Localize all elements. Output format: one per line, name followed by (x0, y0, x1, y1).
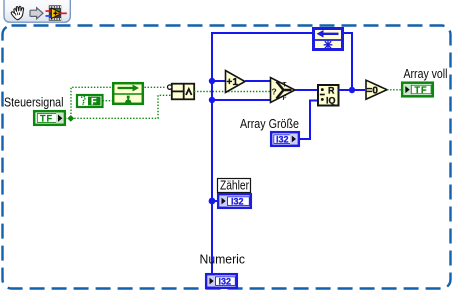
wire equal zero to Array voll indicator (387, 89, 402, 91)
wire junction to Zaehler indicator (209, 198, 218, 205)
toolbar hand tool icon (11, 6, 23, 19)
wire Array Groesse to quotient remainder y (299, 101, 317, 140)
toolbar select arrow icon (30, 8, 43, 19)
numeric control terminal Array Groesse I32 (271, 132, 299, 146)
svg-text:T: T (283, 82, 287, 89)
wire quotient remainder R output to equal zero with junction to feedback (339, 33, 366, 93)
wire Steuersignal to junction (65, 117, 68, 119)
svg-text:I32: I32 (276, 134, 289, 144)
wire junction to increment node (209, 78, 225, 84)
wire main vertical blue (212, 33, 313, 276)
wire AND output to select selector input (194, 91, 270, 93)
svg-text:+1: +1 (227, 77, 239, 88)
label Zaehler boxed (218, 179, 251, 193)
wire increment to select true input (245, 80, 270, 82)
svg-text:Array voll: Array voll (404, 67, 448, 81)
numeric indicator terminal Zaehler I32 (218, 194, 251, 208)
boolean control terminal Steuersignal TF (34, 111, 65, 125)
boolean constant ?F (77, 95, 103, 107)
label Steuersignal (4, 96, 64, 110)
svg-text:I32: I32 (231, 196, 244, 206)
svg-text:=0: =0 (367, 86, 379, 97)
AND node compound arithmetic (168, 83, 195, 99)
svg-text:Zähler: Zähler (220, 179, 249, 193)
label Array voll (404, 67, 448, 81)
svg-text:Numeric: Numeric (200, 253, 246, 267)
wire junction up and right to feedback node input (71, 87, 112, 114)
numeric control label Array Groesse (240, 117, 299, 131)
junction diamond on boolean wire (67, 115, 74, 122)
svg-text:IQ: IQ (326, 96, 336, 106)
svg-text:Array Größe: Array Größe (240, 117, 299, 131)
svg-text:Steuersignal: Steuersignal (4, 96, 64, 110)
wire select output to quotient remainder x (295, 89, 317, 91)
svg-text:F: F (283, 95, 287, 102)
select node (271, 78, 296, 103)
boolean indicator terminal Array voll TF (402, 83, 433, 97)
feedback node green (113, 83, 143, 104)
blue feedback node (313, 29, 343, 50)
wire junction to select false input (209, 97, 270, 103)
equal to zero node (366, 80, 387, 99)
svg-text:I32: I32 (219, 276, 232, 286)
svg-text:F: F (91, 96, 97, 106)
toolbar film strip icon (46, 5, 67, 20)
svg-text:?: ? (272, 87, 277, 97)
svg-text:TF: TF (40, 114, 53, 124)
wire ?F constant to feedback initializer (103, 100, 113, 102)
numeric indicator terminal Numeric I32 (206, 274, 237, 288)
svg-text:TF: TF (415, 85, 428, 95)
wire feedback node output to AND inverted input (145, 86, 166, 88)
wire junction right to AND lower input (74, 95, 171, 118)
label Numeric (200, 253, 246, 267)
toolbar (4, 0, 70, 22)
increment node +1 (226, 71, 246, 93)
svg-text:R: R (328, 86, 335, 96)
quotient and remainder node (318, 85, 339, 106)
